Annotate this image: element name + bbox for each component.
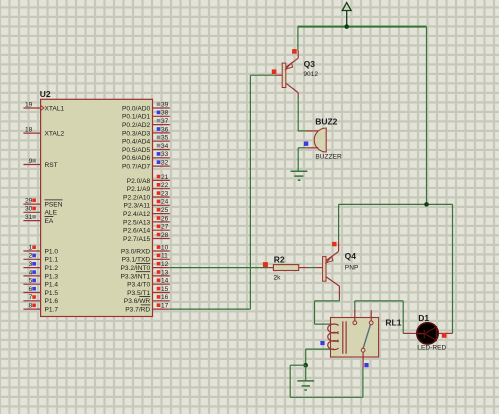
- pin 31 (EA): [23, 214, 53, 225]
- pin 36 (P0.3/AD3): [122, 126, 170, 137]
- pin 15 (P3.5/T1): [127, 286, 170, 297]
- indicator Q4 emitter: [332, 242, 336, 246]
- indicator RL1 common: [364, 363, 368, 367]
- pin 14 (P3.4/T0): [127, 278, 170, 289]
- svg-text:BUZ2: BUZ2: [315, 117, 337, 127]
- svg-text:P3.6/WR: P3.6/WR: [124, 298, 151, 305]
- buzzer BUZ2: [307, 128, 327, 152]
- pin 24 (P2.3/A11): [124, 199, 170, 210]
- svg-text:34: 34: [161, 143, 169, 150]
- indicator RL1 coil: [320, 341, 324, 345]
- pin 21 (P2.0/A8): [127, 174, 170, 185]
- pin 30 (ALE): [23, 206, 57, 217]
- pin 10 (P3.0/RXD): [121, 244, 170, 255]
- pin 12 (P3.2/INT0): [121, 261, 170, 272]
- svg-text:19: 19: [25, 101, 33, 108]
- svg-text:P2.7/A15: P2.7/A15: [123, 236, 150, 243]
- pin 19 (XTAL1): [23, 101, 64, 112]
- pin 5 (P1.4): [23, 278, 58, 289]
- svg-text:11: 11: [161, 253, 168, 260]
- pin 11 (P3.1/TXD): [122, 253, 170, 264]
- svg-text:17: 17: [161, 303, 169, 310]
- relay RL1 coil: [328, 324, 339, 350]
- wire: ground loop to relay common: [290, 364, 306, 366]
- svg-text:15: 15: [161, 286, 169, 293]
- transistor Q3 (PNP 9012): [275, 51, 298, 98]
- wire: Q4 collector to relay coil: [338, 298, 340, 301]
- wire: Q3 collector to buzzer top: [297, 97, 299, 131]
- svg-text:P0.7/AD7: P0.7/AD7: [122, 164, 151, 171]
- junction at mid distribution: [424, 202, 429, 207]
- resistor R2: [269, 265, 323, 271]
- svg-text:R2: R2: [274, 255, 285, 265]
- svg-text:PNP: PNP: [345, 264, 359, 271]
- indicator R2 pin 1: [263, 262, 268, 267]
- svg-text:P2.2/A10: P2.2/A10: [123, 194, 150, 201]
- svg-text:31: 31: [25, 214, 33, 221]
- wire: ground stub: [305, 365, 307, 381]
- pin 34 (P0.5/AD5): [122, 143, 170, 154]
- LED D1 (LED-RED): [403, 323, 452, 344]
- pin 28 (P2.7/A15): [123, 232, 170, 243]
- pin 1 (P1.0): [23, 244, 58, 255]
- pin 25 (P2.4/A12): [123, 207, 170, 218]
- relay RL1 switch: [353, 309, 373, 368]
- pin 6 (P1.5): [23, 286, 58, 297]
- svg-text:1: 1: [29, 244, 33, 251]
- svg-text:36: 36: [161, 126, 169, 133]
- wire: buzzer bottom to ground: [298, 147, 306, 149]
- wire: rail right leg down: [426, 27, 428, 205]
- svg-text:RST: RST: [45, 162, 58, 169]
- svg-text:P3.7/RD: P3.7/RD: [125, 307, 150, 314]
- svg-text:39: 39: [161, 101, 169, 108]
- wire: P3.7/RD to Q3 base (net): [170, 308, 250, 310]
- wire: relay coil bottom to ground junction: [306, 348, 331, 350]
- svg-text:P3.0/RXD: P3.0/RXD: [121, 248, 151, 255]
- pin 38 (P0.1/AD1): [122, 110, 170, 121]
- svg-text:2: 2: [29, 253, 33, 260]
- svg-text:14: 14: [161, 278, 169, 285]
- svg-text:P1.3: P1.3: [45, 273, 59, 280]
- svg-text:9: 9: [29, 158, 33, 165]
- svg-text:35: 35: [161, 135, 169, 142]
- wire: relay pole to LED anode: [354, 301, 356, 309]
- svg-text:EA: EA: [45, 218, 54, 225]
- pin 29 (PSEN): [23, 198, 62, 209]
- svg-text:P2.1/A9: P2.1/A9: [127, 186, 151, 193]
- svg-text:27: 27: [161, 224, 169, 231]
- svg-text:XTAL1: XTAL1: [45, 105, 65, 112]
- svg-text:P0.0/AD0: P0.0/AD0: [122, 105, 151, 112]
- pin 2 (P1.1): [23, 253, 58, 264]
- svg-text:P1.7: P1.7: [45, 307, 59, 314]
- svg-text:P3.4/T0: P3.4/T0: [127, 282, 150, 289]
- svg-text:P1.2: P1.2: [45, 265, 59, 272]
- svg-text:P0.6/AD6: P0.6/AD6: [122, 155, 151, 162]
- svg-text:16: 16: [161, 294, 169, 301]
- pin 9 (RST): [23, 158, 57, 169]
- svg-text:9012: 9012: [303, 71, 318, 78]
- svg-text:28: 28: [161, 232, 169, 239]
- pin 4 (P1.3): [23, 269, 58, 280]
- wire: mid horizontal distribution: [339, 203, 453, 205]
- svg-text:12: 12: [161, 261, 169, 268]
- svg-text:37: 37: [161, 118, 169, 125]
- svg-text:Q4: Q4: [345, 251, 357, 261]
- svg-text:7: 7: [29, 294, 33, 301]
- svg-text:33: 33: [161, 151, 169, 158]
- svg-text:P2.3/A11: P2.3/A11: [124, 203, 151, 210]
- svg-text:P3.2/INT0: P3.2/INT0: [121, 265, 151, 272]
- svg-text:13: 13: [161, 269, 169, 276]
- indicator BUZ2 pin: [304, 142, 308, 146]
- svg-text:25: 25: [161, 207, 169, 214]
- wire: down to LED D1 cathode: [452, 204, 454, 333]
- svg-text:6: 6: [29, 286, 33, 293]
- svg-text:32: 32: [161, 160, 169, 167]
- svg-text:PSEN: PSEN: [45, 202, 63, 209]
- wire: down to Q4 emitter: [338, 204, 340, 240]
- svg-text:P3.1/TXD: P3.1/TXD: [122, 257, 151, 264]
- pin 17 (P3.7/RD): [125, 303, 170, 314]
- svg-text:30: 30: [25, 206, 33, 213]
- svg-text:P2.4/A12: P2.4/A12: [123, 211, 150, 218]
- junction at relay ground node: [303, 363, 308, 368]
- svg-text:P2.5/A13: P2.5/A13: [123, 219, 150, 226]
- svg-text:P1.5: P1.5: [45, 290, 59, 297]
- wire: rail to Q3 emitter: [297, 27, 299, 51]
- svg-text:P3.3/INT1: P3.3/INT1: [121, 273, 151, 280]
- svg-text:18: 18: [25, 127, 33, 134]
- pin 37 (P0.2/AD2): [122, 118, 170, 129]
- svg-text:P3.5/T1: P3.5/T1: [127, 290, 150, 297]
- svg-text:22: 22: [161, 182, 169, 189]
- svg-text:3: 3: [29, 261, 33, 268]
- svg-text:LED-RED: LED-RED: [417, 345, 446, 352]
- svg-text:8: 8: [29, 303, 33, 310]
- svg-text:P0.1/AD1: P0.1/AD1: [122, 114, 151, 121]
- pin 32 (P0.7/AD7): [122, 160, 170, 171]
- svg-text:P1.4: P1.4: [45, 282, 59, 289]
- svg-text:P1.0: P1.0: [45, 248, 59, 255]
- ground symbol under buzzer: [291, 171, 308, 180]
- pin 39 (P0.0/AD0): [122, 101, 170, 112]
- pin 7 (P1.6): [23, 294, 58, 305]
- svg-text:ALE: ALE: [45, 210, 58, 217]
- svg-text:29: 29: [25, 198, 33, 205]
- svg-text:38: 38: [161, 110, 169, 117]
- indicator D1 cathode: [442, 333, 447, 338]
- svg-text:P0.3/AD3: P0.3/AD3: [122, 130, 151, 137]
- svg-text:RL1: RL1: [385, 318, 401, 328]
- ground symbol under relay: [297, 381, 314, 390]
- svg-text:D1: D1: [418, 313, 429, 323]
- pin 13 (P3.3/INT1): [121, 269, 170, 280]
- svg-text:P1.6: P1.6: [45, 298, 59, 305]
- transistor Q4 (PNP): [323, 241, 340, 298]
- svg-text:BUZZER: BUZZER: [315, 153, 342, 160]
- svg-text:P1.1: P1.1: [45, 257, 59, 264]
- svg-text:4: 4: [29, 269, 33, 276]
- svg-text:26: 26: [161, 215, 169, 222]
- svg-text:21: 21: [161, 174, 169, 181]
- svg-text:P2.0/A8: P2.0/A8: [127, 178, 151, 185]
- svg-text:2k: 2k: [274, 275, 282, 282]
- pin 27 (P2.6/A14): [123, 224, 170, 235]
- pin 8 (P1.7): [23, 303, 58, 314]
- pin 16 (P3.6/WR): [124, 294, 170, 305]
- indicator Q3 emitter: [292, 49, 297, 54]
- svg-text:24: 24: [161, 199, 169, 206]
- power symbol VCC arrow: [342, 3, 351, 27]
- pin 18 (XTAL2): [23, 127, 64, 138]
- pin 26 (P2.5/A13): [123, 215, 170, 226]
- svg-text:23: 23: [161, 190, 169, 197]
- wire: P3.2/INT0 to R2: [170, 267, 269, 269]
- svg-text:P0.4/AD4: P0.4/AD4: [122, 139, 151, 146]
- relay RL1 body: [331, 318, 379, 358]
- pin 35 (P0.4/AD4): [122, 135, 170, 146]
- svg-text:Q3: Q3: [304, 59, 316, 69]
- svg-text:5: 5: [29, 278, 33, 285]
- wire: VCC top rail: [298, 26, 427, 28]
- svg-text:XTAL2: XTAL2: [45, 131, 65, 138]
- svg-text:P0.2/AD2: P0.2/AD2: [122, 122, 151, 129]
- indicator Q3 base: [272, 69, 277, 74]
- pin 22 (P2.1/A9): [127, 182, 170, 193]
- relay RL1 core: [343, 321, 346, 354]
- IC U2 (8051 MCU) body: [41, 99, 153, 316]
- svg-text:P2.6/A14: P2.6/A14: [123, 228, 150, 235]
- pin 23 (P2.2/A10): [123, 190, 170, 201]
- pin 33 (P0.6/AD6): [122, 151, 170, 162]
- svg-text:P0.5/AD5: P0.5/AD5: [122, 147, 151, 154]
- svg-text:U2: U2: [40, 89, 51, 99]
- pin 3 (P1.2): [23, 261, 58, 272]
- svg-text:10: 10: [161, 244, 169, 251]
- junction on VCC rail: [344, 24, 349, 29]
